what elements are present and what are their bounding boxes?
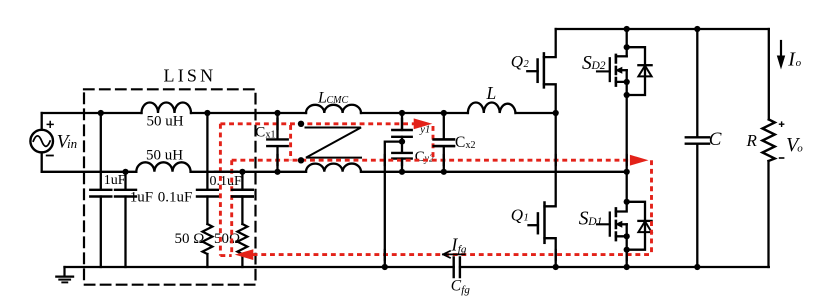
svg-text:CMC: CMC [327,95,349,106]
svg-text:C: C [255,125,265,141]
capacitor C plates [686,137,709,143]
switch SD2 drain stub [616,55,627,57]
red arrowhead on line C [235,249,254,260]
switch SD2 vertical wire upper [626,29,628,56]
wire patch Cx1 over line B [276,155,278,165]
red path right vertical [650,160,653,254]
label SD2 [582,53,606,74]
wire Vin top lead [41,113,43,130]
svg-text:L: L [486,83,497,103]
label LCMC [317,90,349,107]
svg-text:D2: D2 [591,60,606,72]
capacitor Cx1 plates [267,139,287,146]
LISN dashed box [84,89,256,284]
label Ifg [451,234,467,255]
wire top line conductor [42,112,556,114]
black overlay patches over red path [215,119,627,260]
svg-text:0.1uF: 0.1uF [158,190,193,206]
capacitor 0.1uF first branch wire [206,113,208,267]
svg-text:L: L [317,90,327,107]
Vin minus sign [47,155,53,157]
switch SD1 drain stub [616,202,627,212]
switch SD2 gate lead [597,70,610,72]
switch SD1 channel ticks [615,208,618,240]
switch SD2 source stub and wire down [616,70,627,202]
capacitor 1uF second plates [115,190,136,197]
resistor 50ohm first [202,224,212,254]
wire patch Cx2 over line B [443,155,445,165]
inductor 50uH bottom [136,162,190,172]
capacitor 0.1uF second plates patch [232,190,253,197]
label Cy2 [415,149,434,165]
wire patch SD1 leg over line C [626,250,628,260]
capacitor Cy2 plates [392,153,411,159]
label SD1 [579,209,603,230]
svg-text:1uF: 1uF [104,173,126,188]
diode D2 branch [627,47,645,95]
svg-text:50 Ω: 50 Ω [175,231,205,247]
svg-text:in: in [67,136,77,151]
capacitor 0.1uF first plates [197,190,218,197]
svg-text:D1: D1 [587,216,602,228]
red noise path [220,124,651,256]
svg-text:o: o [797,142,803,154]
label Cfg [451,278,471,296]
label minus Vo [779,157,785,159]
red path line B [232,159,631,162]
svg-text:C: C [709,129,722,150]
capacitor 0.1uF second plates [232,190,253,197]
transistor Q1 [529,203,556,268]
choke LCMC bottom winding [306,164,361,172]
red path bottom-left jog [220,254,231,257]
capacitor Cy1 branch wire [401,113,403,153]
red path line C [253,253,652,256]
red path drop at Cy1 [432,126,435,159]
capacitor Cx2 plates [434,139,454,146]
capacitor 1uF first plates [90,190,111,197]
switch SD1 body arrow stub [621,223,626,225]
label Cx2 [455,134,476,151]
diode D1 branch [627,202,645,250]
svg-text:1uF: 1uF [130,190,153,206]
arrow Io [777,41,785,70]
svg-text:R: R [746,131,758,150]
resistor R branch wire [767,29,770,267]
capacitor Cx2 plates patch [434,139,454,146]
capacitor Cy2 bottom wire [401,159,403,172]
label Q2 [511,52,530,71]
choke phase dot bottom [298,157,304,163]
svg-text:Q: Q [511,52,523,71]
wire patch Cy ground stub over line B [384,155,386,165]
inductor L [468,103,516,114]
wire Vin bottom lead [41,152,43,171]
svg-text:50 uH: 50 uH [147,114,184,130]
switch SD1 gate lead [597,223,610,225]
label Io [787,48,801,70]
red arrowhead on line B [630,155,649,166]
diode D2 symbol [638,65,651,76]
red path drop A to B at choke left [289,125,292,160]
capacitor C branch wire [696,29,698,267]
wire patch Cx1 over line A [276,119,278,129]
svg-text:50 uH: 50 uH [146,148,183,164]
svg-text:S: S [582,53,592,74]
wire patch Cy2 over line B [401,159,403,165]
wire patch Q1 drain over line B [555,155,557,165]
red path left outer vertical [219,124,222,256]
switch SD1 source stub and wire down [616,224,627,267]
svg-text:x2: x2 [466,140,476,151]
switch SD2 gate bar [609,58,611,81]
resistor 50ohm second [237,224,247,254]
svg-text:y1: y1 [419,124,430,135]
svg-text:0.1uF: 0.1uF [210,174,243,189]
inductor 50uH top [142,103,192,114]
wire Cy midpoint to ground [385,142,402,267]
capacitor 1uF first branch wire [100,113,102,267]
switch SD1 gate bar [609,213,611,236]
resistor R [762,120,774,162]
label Vo [786,134,803,156]
wire mid line conductor [42,171,627,173]
capacitor 1uF second branch wire [124,172,126,267]
svg-text:1: 1 [524,212,529,223]
svg-text:LISN: LISN [164,66,217,86]
svg-text:C: C [451,278,462,295]
svg-text:C: C [415,149,425,165]
switch SD2 body arrow head [615,67,622,74]
red path line A [220,122,414,125]
label plus Vo [779,121,785,127]
svg-text:o: o [796,57,802,69]
wire patch Cy1 over line A [401,119,403,129]
transistor Q2 [527,29,555,113]
red path left inner vertical [230,160,233,255]
capacitor Cfg plates [454,258,460,278]
wire patch Q1 source over line C [555,250,557,260]
label Cx1 [255,125,275,141]
wire patch Cy ground stub over line C [384,250,386,260]
capacitor Cx2 branch wire [443,113,445,172]
choke phase dot top [298,121,304,127]
wire top rail [556,28,769,30]
svg-text:2: 2 [524,59,530,70]
capacitor 0.1uF second branch wire [241,172,243,267]
wire ground rail [65,266,769,268]
AC source Vin [30,130,53,153]
label Vin [57,132,77,153]
choke LCMC top winding [306,105,361,113]
svg-text:S: S [579,209,589,230]
svg-text:50Ω: 50Ω [214,231,240,247]
diode D1 symbol [638,221,651,232]
capacitor Cy1 plates [392,130,411,137]
wire phase node to Q1 drain [545,113,556,206]
svg-text:C: C [455,134,465,151]
capacitor Cx1 branch wire [276,113,278,172]
wire patch mid rail over left verticals [215,171,237,173]
switch SD1 body arrow head [615,221,622,228]
svg-text:Q: Q [511,205,523,224]
Vin plus sign [47,122,53,128]
red arrowhead on line A [414,118,433,129]
svg-text:fg: fg [461,284,470,296]
choke LCMC core Z bars [306,128,362,158]
switch SD2 channel ticks [615,55,618,86]
svg-text:x1: x1 [266,130,276,141]
switch SD2 body arrow stub [621,69,626,71]
label Q1 [511,205,529,224]
ground [56,267,73,282]
wire patch SD leg over line B [626,155,628,165]
arrow Ifg [443,251,465,258]
